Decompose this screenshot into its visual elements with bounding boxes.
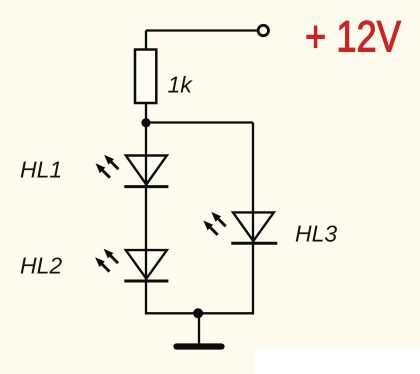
wire: right branch vertical down to HL3	[252, 123, 254, 214]
resistor R1 1k	[135, 50, 156, 104]
white patch bottom-right	[255, 349, 420, 374]
svg-text:+ 12V: + 12V	[305, 13, 402, 62]
wire: HL3 cathode down to bottom rail	[252, 243, 254, 314]
LED HL2	[124, 250, 168, 281]
HL3 emission arrow 1	[203, 221, 217, 235]
wire: resistor top lead	[145, 31, 147, 51]
terminal +12V (open circle)	[258, 25, 268, 35]
HL1 emission arrow 1	[96, 163, 110, 177]
HL3 emission arrow 2	[211, 212, 225, 226]
svg-text:HL3: HL3	[295, 221, 337, 247]
svg-text:HL1: HL1	[20, 157, 62, 183]
ground	[177, 343, 222, 349]
wire: node A to right branch	[146, 121, 253, 123]
LED HL3	[231, 212, 277, 243]
svg-text:HL2: HL2	[20, 253, 62, 279]
HL2 emission arrow 1	[95, 257, 109, 271]
wire: bottom rail	[146, 312, 253, 314]
HL1 emission arrow 2	[104, 155, 118, 169]
wire: top horizontal from resistor to +12V terminal	[146, 29, 258, 31]
wire: HL1 cathode to LED HL2	[145, 187, 147, 251]
node A (junction dot under resistor)	[141, 118, 150, 127]
wire: HL2 cathode down to bottom rail	[145, 281, 147, 315]
svg-text:1k: 1k	[168, 72, 194, 98]
HL2 emission arrow 2	[104, 249, 118, 263]
wire: node A down to LED HL1	[145, 123, 147, 157]
node B (bottom junction dot)	[193, 308, 203, 318]
wire: node B to ground	[198, 313, 200, 344]
LED HL1	[124, 156, 168, 187]
wire: resistor bottom lead to node A	[145, 103, 147, 124]
